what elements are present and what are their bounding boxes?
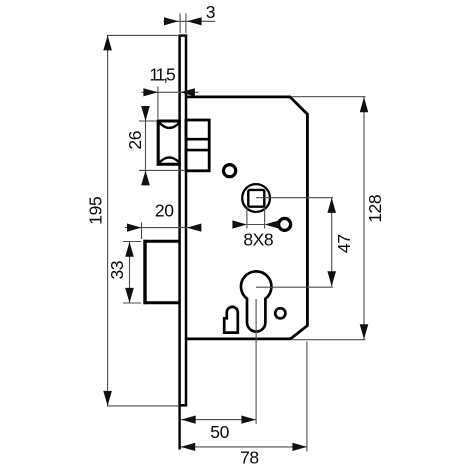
latch tail inner line 1 — [186, 138, 209, 141]
dim 195: bottom arrow — [103, 391, 112, 406]
dim 78: left arrow — [181, 443, 196, 451]
latch bolt left edge — [157, 120, 160, 166]
dim 8X8: extension lines — [246, 208, 248, 229]
dim 26: dimension line — [145, 106, 147, 186]
dim 78: right arrow — [292, 443, 307, 451]
dim 26: top arrow — [141, 106, 150, 121]
dim 3: extension lines — [179, 14, 181, 34]
dim 47: dimension line — [331, 198, 333, 287]
dim 47: top arrow — [327, 198, 336, 213]
latch tail block inside case — [186, 120, 209, 171]
latch bolt bottom edge — [157, 163, 181, 166]
dim 20: right arrow — [187, 224, 202, 232]
dim 26: extension bottom — [139, 169, 184, 171]
screw hole upper — [224, 165, 236, 177]
latch bolt top edge — [157, 120, 181, 123]
dim 33: dimension line — [129, 242, 131, 304]
dim 128: extension bottom — [292, 339, 366, 341]
latch tail inner line 2 — [186, 149, 209, 152]
svg-text:128: 128 — [365, 195, 385, 223]
dim 47: bottom arrow — [327, 271, 336, 286]
dim 50: left arrow — [181, 416, 196, 424]
svg-text:20: 20 — [155, 200, 174, 220]
dim 3: left arrow — [164, 17, 179, 25]
dim 8X8: dimension line — [247, 224, 265, 226]
dim 128: extension top — [292, 96, 366, 98]
faceplate (side view, 3mm thick) — [180, 36, 186, 406]
dim 128: top arrow — [360, 97, 369, 112]
svg-text:3: 3 — [206, 2, 215, 22]
svg-text:78: 78 — [240, 448, 259, 468]
leader from spindle square center — [256, 197, 333, 199]
dim 128: bottom arrow — [360, 324, 369, 339]
dim 11,5: dimension line — [142, 91, 199, 93]
dim 195: extension bottom — [107, 405, 179, 407]
dim 26: bottom arrow — [141, 170, 150, 185]
spindle hub circle — [242, 184, 270, 212]
dim 33: bottom arrow — [125, 288, 134, 303]
dim 20: extension line — [141, 223, 143, 240]
dim 50: extension line from cylinder center — [255, 299, 257, 424]
svg-text:11,5: 11,5 — [149, 65, 175, 85]
cylinder retaining piece — [224, 307, 238, 333]
dim 195: extension top — [107, 34, 178, 36]
dim 33: extension bottom — [123, 302, 141, 304]
dim 8X8: right arrow — [265, 220, 280, 228]
dim 50: right arrow — [241, 416, 256, 424]
latch bolt top bevel arc — [159, 122, 180, 128]
spindle square 8x8 — [248, 190, 264, 207]
dim 33: top arrow — [125, 242, 134, 257]
dim 78: dimension line — [181, 446, 307, 448]
deadbolt bottom edge — [145, 301, 181, 304]
dim 8X8: left arrow — [232, 220, 247, 228]
dim 20: left arrow — [127, 224, 142, 232]
dim 128: dimension line — [363, 97, 365, 340]
svg-text:50: 50 — [210, 422, 229, 442]
latch bolt bottom bevel arc — [159, 157, 180, 163]
deadbolt top edge — [145, 240, 181, 243]
svg-text:195: 195 — [85, 197, 105, 225]
dim 50: dimension line — [181, 419, 256, 421]
screw hole lower right — [275, 308, 285, 318]
faceplate bottom extension line (thick) — [178, 407, 180, 450]
lock body outline with chamfered right corners — [187, 97, 308, 339]
deadbolt left (front) edge — [143, 240, 146, 304]
svg-text:33: 33 — [107, 261, 127, 280]
dim 3: right arrow — [187, 17, 202, 25]
screw hole middle right — [279, 218, 291, 230]
dim 33: extension top — [123, 241, 141, 243]
dim 195: top arrow — [103, 35, 112, 50]
euro cylinder keyhole — [241, 271, 271, 331]
dim 11,5: right arrow — [180, 88, 195, 96]
svg-text:26: 26 — [125, 131, 145, 150]
leader from cylinder center — [256, 286, 333, 288]
dim 11,5: left arrow — [143, 88, 158, 96]
dim 3: dimension line — [163, 20, 215, 22]
svg-text:47: 47 — [334, 234, 354, 253]
dim 26: extension top — [139, 120, 156, 122]
svg-text:8X8: 8X8 — [243, 230, 273, 250]
dim 11,5: extension line — [157, 87, 159, 120]
dim 78: extension line right — [306, 342, 308, 452]
dim 20: dimension line — [125, 227, 199, 229]
dim 195: dimension line — [107, 35, 109, 406]
